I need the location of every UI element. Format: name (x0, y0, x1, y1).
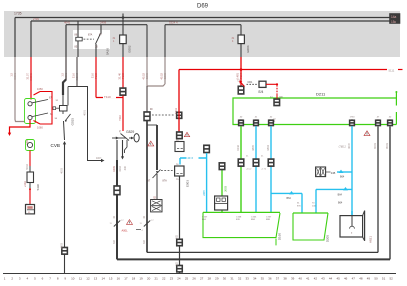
red wire to fuse S136 (29, 151, 31, 167)
svg-text:CVB: CVB (51, 143, 60, 148)
svg-text:29: 29 (215, 276, 219, 280)
svg-text:8: 8 (57, 276, 59, 280)
G829 oval contact (134, 134, 139, 142)
svg-text:28: 28 (208, 276, 212, 280)
red wire T110 horizontal (96, 97, 123, 99)
bus segment 3b with label 5324 (165, 24, 241, 26)
connector on x117 (114, 186, 121, 196)
svg-text:87A: 87A (163, 180, 168, 183)
green wire x222 (221, 162, 223, 212)
beige pair merge (146, 57, 148, 86)
svg-text:90: 90 (150, 109, 153, 111)
wire drop x66 (65, 25, 67, 57)
track numbers (4, 276, 393, 280)
svg-text:24B: 24B (331, 172, 336, 175)
connector S (green outline, 2 contacts) (25, 99, 36, 124)
svg-text:2: 2 (11, 276, 13, 280)
svg-text:5002: 5002 (25, 163, 29, 169)
svg-text:5: 5 (34, 276, 36, 280)
splice on x117 (114, 221, 120, 227)
svg-text:B94: B94 (251, 219, 256, 221)
dashed CD1 (247, 83, 258, 85)
svg-text:+1T2: +1T2 (261, 169, 267, 171)
cyan wire x271 (270, 126, 272, 212)
svg-text:45.52: 45.52 (142, 72, 146, 79)
dashed to E003 (161, 170, 174, 172)
svg-text:79: 79 (119, 129, 122, 132)
svg-text:1.5: 1.5 (10, 72, 14, 76)
thick wire x147 down (146, 121, 148, 252)
svg-text:4001: 4001 (83, 109, 87, 115)
red wire x96 (relay30) (95, 57, 97, 98)
svg-text:1730: 1730 (350, 117, 356, 119)
red wire x241 lower (240, 57, 242, 86)
red wire x123 below band (122, 57, 124, 88)
wire drop x165 (164, 25, 166, 57)
svg-text:13: 13 (94, 276, 98, 280)
svg-text:31.57: 31.57 (26, 72, 30, 79)
svg-text:19: 19 (139, 276, 143, 280)
svg-text:970: 970 (297, 205, 301, 207)
svg-text:B70: B70 (236, 219, 241, 221)
ground block 30 (26, 205, 35, 215)
svg-text:33: 33 (245, 276, 249, 280)
svg-text:22: 22 (162, 276, 166, 280)
wire drop x15 (14, 18, 16, 58)
svg-text:48: 48 (359, 276, 363, 280)
label T110 (103, 95, 116, 99)
thick ground wire x117 (116, 160, 118, 259)
svg-text:18: 18 (132, 276, 136, 280)
svg-text:1050: 1050 (37, 87, 43, 91)
svg-text:T111: T111 (174, 108, 178, 114)
svg-text:2499: 2499 (100, 20, 107, 24)
svg-text:70: 70 (312, 203, 315, 205)
svg-text:5111: 5111 (389, 68, 395, 72)
module D211 outline (233, 98, 396, 125)
svg-text:51: 51 (382, 276, 386, 280)
wire x15 beige (15, 57, 25, 122)
track ruler line (3, 273, 396, 275)
bus wire 15 (y21) (31, 20, 390, 22)
wire into coil (62, 95, 64, 106)
junction dot x123 on bus 30 (122, 16, 125, 19)
switch arm G015 (62, 111, 64, 114)
svg-text:D211: D211 (316, 92, 326, 97)
svg-text:9: 9 (64, 276, 66, 280)
connector D205 outline (293, 213, 328, 240)
unit A821 box (340, 216, 363, 237)
svg-text:B64: B64 (338, 202, 343, 205)
svg-text:4641: 4641 (64, 20, 71, 24)
svg-text:E004: E004 (246, 45, 250, 52)
svg-text:A821: A821 (369, 236, 373, 243)
svg-text:B04: B04 (202, 219, 207, 221)
svg-text:4: 4 (27, 276, 29, 280)
svg-text:17: 17 (124, 276, 128, 280)
wire up to D211 pin47 (377, 127, 379, 253)
svg-text:B98: B98 (266, 219, 271, 221)
svg-text:38: 38 (283, 276, 287, 280)
svg-text:20: 20 (147, 276, 151, 280)
svg-text:B64: B64 (338, 193, 343, 196)
D211 bottom pins (238, 117, 393, 126)
pin 44 top (274, 99, 280, 106)
svg-text:50: 50 (374, 276, 378, 280)
svg-text:27: 27 (200, 276, 204, 280)
svg-text:6: 6 (42, 276, 44, 280)
svg-text:4003: 4003 (60, 242, 64, 248)
relay 0A26 pin87 wire (100, 25, 102, 34)
relay 0A26 dashed link (84, 38, 95, 40)
svg-text:31.40: 31.40 (118, 72, 122, 79)
cyan into A821 (351, 211, 353, 216)
svg-text:40: 40 (389, 117, 392, 119)
relay1 dashes (152, 114, 175, 116)
svg-text:11: 11 (110, 223, 113, 225)
cyan wire x256 (255, 126, 257, 212)
svg-text:34: 34 (253, 276, 257, 280)
power distribution band (4, 11, 400, 57)
switch2 output wire (156, 174, 158, 200)
svg-text:A00L: A00L (122, 229, 129, 233)
svg-text:25: 25 (185, 276, 189, 280)
box E023 (175, 142, 184, 152)
svg-text:41: 41 (306, 276, 310, 280)
svg-text:0242: 0242 (236, 144, 240, 150)
green wire x241 (240, 126, 242, 212)
relay E003 box (175, 166, 184, 176)
thick jog to G015 (63, 80, 66, 96)
svg-text:1735: 1735 (14, 12, 22, 16)
warning triangle + A00L (127, 220, 133, 225)
red wire to block (29, 190, 31, 205)
connector box x147 (144, 112, 151, 122)
wire labels under band (10, 72, 244, 80)
svg-text:D160: D160 (278, 233, 282, 241)
svg-text:41: 41 (261, 156, 264, 158)
bus segment 3a with labels 4641/2499 (66, 24, 147, 26)
wire x31 red (30, 57, 32, 100)
svg-text:40: 40 (240, 117, 243, 119)
splice box 24B (316, 167, 331, 177)
svg-text:14: 14 (101, 276, 105, 280)
svg-text:39: 39 (291, 276, 295, 280)
fuse E004 (232, 25, 251, 57)
svg-text:31: 31 (297, 203, 300, 205)
svg-text:C745: C745 (251, 216, 257, 218)
cyan wire x206 down (206, 153, 208, 212)
svg-text:CD1: CD1 (248, 81, 253, 84)
svg-text:2487: 2487 (202, 189, 206, 195)
svg-text:35: 35 (261, 276, 265, 280)
svg-text:430: 430 (123, 165, 127, 170)
svg-text:46: 46 (344, 276, 348, 280)
connector on T111 upper (176, 112, 182, 119)
svg-text:C737: C737 (266, 216, 272, 218)
connector circle (green) (26, 140, 35, 151)
warning small x186 (184, 132, 189, 136)
connector on T111 (176, 132, 182, 140)
svg-text:1: 1 (4, 276, 6, 280)
svg-text:24: 24 (177, 276, 181, 280)
svg-text:11: 11 (140, 223, 143, 225)
svg-text:D205: D205 (326, 235, 330, 243)
svg-text:21: 21 (155, 276, 159, 280)
socket bus D160 (203, 211, 280, 213)
relay 0A26 body (73, 30, 110, 49)
svg-text:11: 11 (79, 276, 82, 280)
relay 0A26 coil (76, 21, 82, 57)
svg-text:E002: E002 (128, 45, 132, 52)
svg-text:4: 4 (142, 230, 144, 232)
wire x123 upper (122, 14, 124, 36)
ground bus lower (to x390) (117, 258, 390, 260)
svg-text:0A26: 0A26 (106, 48, 110, 55)
bracket 4001 (68, 87, 102, 161)
relay socket block x222 (215, 196, 228, 210)
connector boxes on E023 wire (176, 239, 182, 246)
wire up to D211 pin40 (389, 127, 391, 260)
connector on x241 (238, 86, 244, 95)
svg-text:31: 31 (56, 100, 59, 102)
svg-text:41: 41 (255, 117, 258, 119)
svg-text:49: 49 (367, 276, 371, 280)
svg-text:C7: C7 (151, 220, 155, 222)
relay 0A26 pin30 wire (95, 44, 97, 57)
wire x147 to connector (146, 86, 148, 112)
svg-text:B64: B64 (287, 197, 292, 200)
cyan branch y172 to splice 24B (337, 171, 352, 173)
red bracket 1050/1060 (40, 92, 52, 125)
svg-text:47: 47 (352, 276, 356, 280)
fuse E002 (113, 35, 132, 53)
svg-text:12: 12 (86, 276, 90, 280)
svg-text:42: 42 (314, 276, 318, 280)
svg-text:7: 7 (49, 276, 51, 280)
svg-text:2003: 2003 (224, 185, 228, 191)
svg-text:37: 37 (276, 276, 280, 280)
svg-text:1.5: 1.5 (61, 72, 65, 76)
svg-text:15: 15 (109, 276, 113, 280)
green stub below D160 (275, 239, 277, 246)
svg-text:C7: C7 (121, 220, 125, 222)
switch G829 arm (112, 137, 126, 139)
svg-text:45.52: 45.52 (160, 72, 164, 79)
svg-text:30: 30 (143, 215, 146, 218)
svg-text:16: 16 (117, 276, 121, 280)
wire x63 to CVB (64, 121, 65, 140)
relay 0A26 switch arm (96, 34, 101, 45)
svg-text:5324 4: 5324 4 (169, 20, 178, 24)
connector D160 outline (203, 212, 280, 237)
svg-text:S136: S136 (36, 184, 40, 191)
svg-text:T110: T110 (104, 95, 111, 99)
svg-text:41: 41 (246, 156, 249, 158)
svg-text:6003: 6003 (373, 142, 377, 148)
svg-text:15c: 15c (391, 20, 397, 24)
svg-text:87A: 87A (88, 34, 93, 37)
fuse S136 (23, 166, 40, 191)
socket bus D205 (293, 212, 328, 214)
connector on CVB wire (61, 247, 67, 255)
A821 internal lamp (351, 216, 353, 226)
svg-text:44: 44 (329, 276, 333, 280)
svg-text:10: 10 (71, 276, 75, 280)
fuse E/4 (259, 81, 266, 87)
svg-text:G829: G829 (126, 130, 134, 134)
svg-text:43: 43 (321, 276, 325, 280)
svg-text:8003: 8003 (385, 142, 389, 148)
svg-text:1060: 1060 (37, 126, 43, 130)
svg-text:3: 3 (19, 276, 21, 280)
svg-text:304: 304 (113, 239, 116, 244)
svg-text:(7)B12: (7)B12 (339, 146, 347, 149)
red exit wire to left edge (10, 120, 31, 133)
svg-text:3047: 3047 (347, 142, 351, 148)
svg-text:23: 23 (170, 276, 174, 280)
black wire from E003 down (179, 176, 181, 274)
svg-text:87: 87 (148, 180, 151, 183)
G829 drops (116, 140, 118, 160)
svg-text:30: 30 (223, 276, 227, 280)
coil G015 (53, 106, 75, 126)
bus wire 30 (y17.5) (15, 17, 390, 19)
svg-text:2F 6: 2F 6 (188, 156, 194, 160)
svg-text:31: 31 (230, 276, 234, 280)
connector on x222 (219, 162, 225, 170)
svg-text:4007: 4007 (96, 157, 102, 160)
cyan branch y189 to D205 pin2 (316, 188, 352, 190)
branch to switch2 (147, 124, 157, 126)
svg-text:3805: 3805 (251, 144, 255, 150)
svg-text:31.0: 31.0 (72, 72, 76, 78)
svg-text:4102: 4102 (118, 165, 122, 171)
splice block x157 (151, 200, 162, 212)
switch contact lines 67/34 (32, 100, 48, 103)
wire x77 (relay85) (76, 57, 78, 87)
svg-text:40: 40 (299, 276, 303, 280)
svg-text:302: 302 (176, 261, 179, 266)
cyan link 2F (180, 157, 207, 159)
splice on x147 (144, 221, 150, 227)
wire drop x147 (146, 25, 148, 57)
svg-text:32: 32 (238, 276, 242, 280)
cyan x206 connector (203, 145, 209, 153)
svg-text:31.0: 31.0 (91, 72, 95, 78)
svg-text:+30A: +30A (23, 181, 27, 187)
svg-text:G015: G015 (71, 118, 75, 126)
svg-text:T110: T110 (118, 114, 122, 120)
red feed line 5111 (179, 69, 387, 71)
svg-text:b: b (351, 232, 353, 234)
svg-text:+1C2: +1C2 (246, 169, 252, 171)
svg-text:304: 304 (143, 239, 146, 244)
svg-text:2739: 2739 (33, 17, 39, 21)
terminal box 14a/15c (390, 14, 401, 25)
switch2 87/87A (153, 170, 161, 179)
cyan branch to D205 pin1 (271, 192, 302, 194)
svg-text:(66): (66) (279, 96, 283, 98)
svg-text:E003: E003 (186, 180, 190, 187)
wire x64.5 to track 9 (64, 144, 66, 274)
svg-text:45: 45 (336, 276, 340, 280)
warning triangle near pin47 (364, 131, 370, 136)
svg-text:D69: D69 (197, 4, 209, 10)
connector on x271 (268, 159, 274, 167)
red T111 wire (178, 70, 180, 133)
connector on x123 (120, 88, 127, 96)
svg-text:C748: C748 (236, 216, 242, 218)
warning triangle x150 (148, 141, 154, 146)
svg-text:34: 34 (55, 118, 58, 120)
cyan wire x352 (351, 126, 353, 215)
svg-text:0409: 0409 (112, 165, 116, 171)
svg-text:52: 52 (390, 276, 394, 280)
svg-text:75: 75 (176, 179, 179, 181)
wire x66 lower (65, 57, 67, 80)
wire drop x31 (30, 21, 32, 57)
svg-text:302: 302 (176, 234, 179, 239)
red wire x123 to G829 (122, 96, 124, 131)
svg-text:C747: C747 (202, 216, 208, 218)
svg-text:E/4: E/4 (259, 90, 264, 94)
svg-text:47: 47 (377, 117, 380, 119)
wire x123 lower (122, 44, 124, 57)
svg-text:4003: 4003 (60, 167, 64, 173)
svg-text:26: 26 (192, 276, 196, 280)
svg-text:0.481: 0.481 (236, 72, 240, 79)
junction dot x241 (240, 68, 243, 71)
ground bus upper (to x378) (147, 251, 378, 253)
red dashed drop to pin44 (276, 85, 278, 94)
svg-text:14a: 14a (391, 15, 397, 19)
svg-text:36: 36 (268, 276, 272, 280)
svg-text:1804: 1804 (266, 144, 270, 150)
svg-text:B64: B64 (340, 176, 345, 179)
svg-text:30: 30 (113, 215, 116, 218)
connector on x256 (253, 159, 259, 167)
connector on x241 green (238, 159, 244, 167)
